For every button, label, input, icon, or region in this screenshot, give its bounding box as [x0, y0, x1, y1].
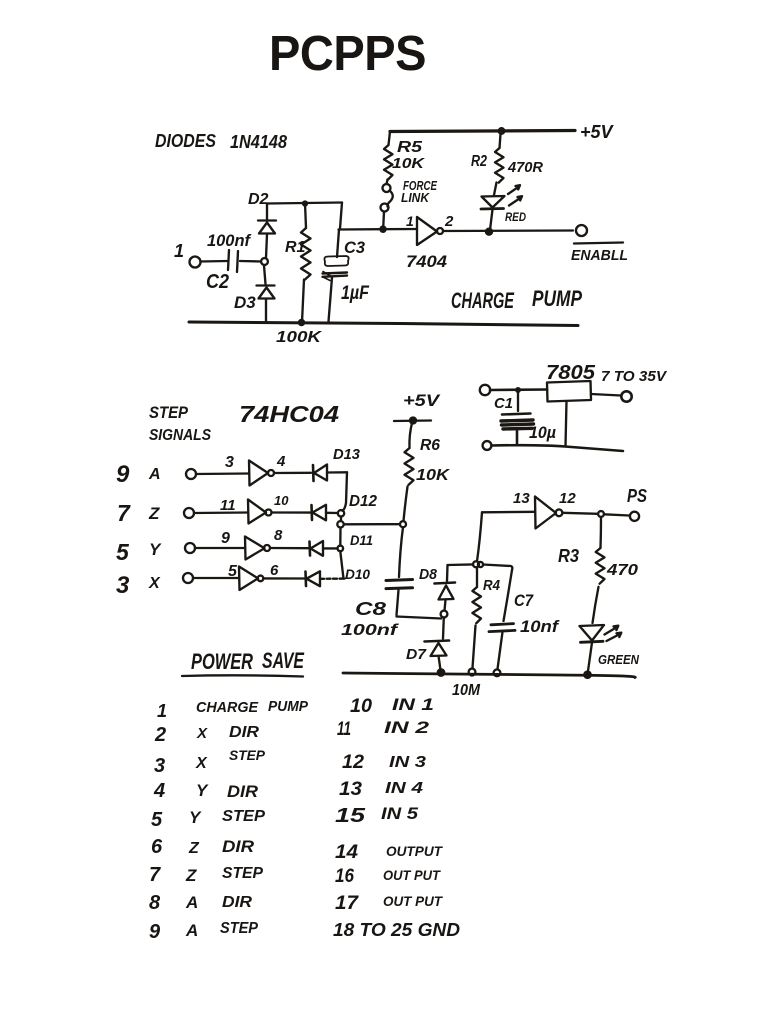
svg-text:7: 7 — [117, 500, 131, 526]
svg-text:6: 6 — [151, 836, 163, 858]
7805 ground lead — [566, 401, 567, 446]
regulator 7805 box — [547, 381, 591, 402]
wire inverter to D11 — [270, 547, 308, 550]
terminal A — [186, 469, 196, 479]
svg-text:PUMP: PUMP — [268, 698, 309, 715]
svg-text:D8: D8 — [419, 566, 438, 583]
op-amp U2B inverter — [248, 500, 266, 524]
svg-text:STEP: STEP — [229, 747, 266, 763]
junction D8/D7/C8 — [441, 611, 448, 618]
svg-text:10nf: 10nf — [520, 617, 561, 636]
svg-text:18 TO 25 GND: 18 TO 25 GND — [333, 920, 460, 940]
svg-text:10: 10 — [274, 493, 289, 508]
junction R6/C8/bus — [400, 521, 406, 527]
svg-text:OUT PUT: OUT PUT — [383, 867, 441, 883]
node junction C2/D2/D3 — [261, 258, 268, 265]
svg-text:C2: C2 — [206, 271, 229, 293]
svg-text:X: X — [195, 755, 208, 772]
op-amp U2D inverter — [239, 567, 258, 591]
wire inverter to D12 — [272, 511, 311, 513]
svg-text:7404: 7404 — [406, 252, 448, 271]
diode D7 — [442, 618, 445, 639]
svg-text:11: 11 — [220, 497, 236, 514]
svg-text:R2: R2 — [471, 153, 487, 170]
+5V stub wire — [394, 419, 431, 422]
wire inverter to PS terminal — [563, 513, 599, 514]
ground rail charge pump — [189, 322, 578, 326]
svg-text:11: 11 — [337, 719, 351, 740]
svg-text:13: 13 — [513, 490, 530, 507]
svg-text:1µF: 1µF — [341, 283, 370, 304]
regulator input terminal — [480, 385, 490, 395]
svg-text:10K: 10K — [392, 155, 425, 172]
svg-text:DIR: DIR — [227, 782, 259, 801]
svg-text:A: A — [185, 921, 198, 940]
capacitor C8 100nf — [399, 527, 403, 577]
svg-text:PS: PS — [627, 486, 647, 506]
resistor R6 10K — [409, 423, 412, 448]
svg-text:ENABLL: ENABLL — [571, 247, 628, 264]
ground rail power save — [343, 673, 635, 678]
svg-text:9: 9 — [149, 921, 161, 943]
resistor R5 10K — [389, 132, 391, 146]
resistor R4 — [476, 567, 478, 587]
svg-text:SAVE: SAVE — [262, 648, 305, 673]
capacitor C2 — [228, 250, 238, 272]
capacitor C1 10u — [517, 390, 519, 411]
svg-text:470R: 470R — [507, 159, 543, 176]
svg-text:R5: R5 — [397, 139, 423, 156]
svg-text:OUTPUT: OUTPUT — [386, 843, 443, 859]
op-amp U1 7404 inverter (pins 1,2) — [417, 217, 437, 245]
terminal Y — [185, 543, 195, 553]
diode D11 — [308, 542, 311, 556]
svg-text:100K: 100K — [276, 329, 323, 346]
wire A to inverter — [196, 472, 249, 475]
svg-text:470: 470 — [606, 562, 638, 579]
diode D12 — [310, 505, 313, 520]
svg-text:Z: Z — [185, 866, 197, 885]
svg-text:8: 8 — [274, 527, 283, 544]
svg-text:STEP: STEP — [149, 403, 189, 422]
LED arrows — [508, 185, 520, 194]
svg-text:100nf: 100nf — [207, 231, 252, 250]
7805 bottom rail — [483, 441, 492, 450]
svg-text:2: 2 — [444, 213, 454, 230]
svg-text:12: 12 — [342, 752, 364, 773]
op-amp U2C inverter — [245, 537, 265, 560]
wire input to C2 — [201, 260, 228, 263]
wire 7404 output to ENABLE — [443, 229, 573, 232]
diode D3 — [264, 266, 266, 285]
svg-text:D13: D13 — [333, 446, 361, 463]
svg-text:D3: D3 — [234, 293, 256, 312]
terminal Z — [184, 508, 194, 518]
svg-text:R1: R1 — [285, 239, 306, 256]
ENABLE terminal — [576, 225, 587, 236]
svg-text:CHARGE: CHARGE — [196, 699, 259, 716]
LED red — [482, 196, 505, 208]
node junction R4/C7/D8 — [473, 561, 479, 567]
svg-text:IN 5: IN 5 — [381, 804, 419, 823]
svg-text:IN 2: IN 2 — [384, 718, 430, 737]
svg-text:D7: D7 — [406, 646, 427, 663]
resistor R3 470 — [599, 517, 602, 548]
svg-text:IN 1: IN 1 — [392, 695, 434, 714]
svg-text:STEP: STEP — [222, 808, 265, 825]
label DIODES 1N4148 — [155, 131, 287, 152]
svg-text:10K: 10K — [416, 467, 451, 484]
resistor R1 — [305, 203, 306, 228]
svg-text:+5V: +5V — [403, 391, 441, 410]
svg-text:C3: C3 — [344, 238, 366, 257]
regulator 7805 label — [546, 362, 668, 385]
svg-text:13: 13 — [339, 779, 362, 800]
svg-text:Y: Y — [196, 781, 209, 800]
svg-text:Z: Z — [188, 840, 200, 857]
svg-text:R3: R3 — [558, 546, 579, 566]
svg-text:3: 3 — [116, 572, 130, 599]
wire C8 bottom to D8/D7 junction — [397, 617, 442, 619]
svg-text:A: A — [148, 466, 161, 483]
capacitor C7 10nf — [504, 570, 513, 621]
svg-text:C8: C8 — [355, 599, 386, 619]
svg-text:5: 5 — [151, 809, 163, 831]
wire D8 top to node — [448, 563, 474, 566]
svg-text:R4: R4 — [483, 577, 501, 594]
svg-text:C7: C7 — [514, 591, 534, 610]
wire inverter to D10 — [264, 577, 305, 579]
svg-text:4: 4 — [153, 780, 165, 802]
svg-text:X: X — [196, 725, 208, 742]
wire input to 7805 — [490, 388, 547, 391]
svg-text:RED: RED — [505, 210, 526, 224]
svg-text:DIR: DIR — [222, 837, 255, 856]
junction D7 on ground rail — [438, 669, 444, 675]
wire X to inverter — [193, 577, 239, 579]
svg-text:12: 12 — [559, 490, 576, 507]
svg-text:A: A — [185, 893, 198, 912]
svg-text:5: 5 — [116, 539, 130, 565]
LED green — [580, 625, 605, 641]
diode D13 — [312, 465, 315, 481]
wire C3 node to 7404 input — [339, 228, 418, 231]
svg-text:1N4148: 1N4148 — [230, 132, 287, 152]
capacitor C3 (1uF electrolytic) — [340, 203, 342, 229]
svg-text:LINK: LINK — [401, 190, 430, 205]
svg-text:3: 3 — [225, 454, 234, 471]
svg-text:D2: D2 — [248, 191, 269, 208]
svg-text:1: 1 — [157, 701, 167, 721]
wire Y to inverter — [195, 547, 245, 549]
diode bus vertical — [343, 472, 348, 511]
diode D2 — [266, 234, 267, 258]
svg-text:1: 1 — [174, 241, 184, 261]
svg-text:10M: 10M — [452, 682, 481, 699]
svg-text:74HC04: 74HC04 — [239, 401, 339, 427]
wire node to C7 — [483, 565, 512, 571]
svg-text:STEP: STEP — [220, 920, 258, 937]
svg-text:14: 14 — [335, 842, 358, 863]
svg-text:16: 16 — [335, 866, 354, 887]
svg-text:DIR: DIR — [222, 894, 252, 911]
svg-text:DIR: DIR — [229, 724, 259, 741]
svg-text:GREEN: GREEN — [598, 652, 640, 667]
heading underline — [182, 675, 303, 676]
table left column — [149, 698, 309, 943]
wire inverter to D13 — [274, 472, 311, 475]
svg-text:6: 6 — [270, 562, 279, 579]
svg-text:OUT PUT: OUT PUT — [383, 893, 443, 909]
junction on bus at D12 — [338, 510, 344, 516]
junction on bus at D11 — [338, 546, 344, 552]
op-amp U2A inverter — [249, 461, 268, 486]
svg-text:10µ: 10µ — [529, 423, 556, 442]
svg-text:4: 4 — [276, 453, 286, 470]
wire 7805 to output terminal — [591, 394, 621, 396]
svg-text:PUMP: PUMP — [532, 286, 582, 311]
svg-text:X: X — [148, 575, 161, 592]
svg-text:C1: C1 — [494, 395, 513, 412]
svg-text:IN 3: IN 3 — [389, 754, 426, 771]
svg-text:DIODES: DIODES — [155, 131, 216, 151]
terminal PS — [630, 512, 639, 521]
svg-text:POWER: POWER — [191, 649, 253, 674]
svg-text:D12: D12 — [349, 493, 377, 510]
svg-text:15: 15 — [335, 805, 366, 827]
force link circles — [383, 184, 391, 192]
svg-text:5: 5 — [228, 563, 238, 580]
svg-text:8: 8 — [149, 892, 161, 914]
heading POWER SAVE — [191, 648, 305, 674]
svg-text:D11: D11 — [350, 532, 373, 548]
svg-text:7: 7 — [149, 864, 161, 886]
svg-text:Z: Z — [148, 504, 160, 523]
svg-text:STEP: STEP — [222, 865, 263, 882]
diode D10 — [304, 572, 307, 587]
svg-text:CHARGE: CHARGE — [451, 288, 515, 313]
svg-text:SIGNALS: SIGNALS — [149, 427, 211, 444]
svg-text:2: 2 — [154, 724, 166, 746]
svg-text:9: 9 — [221, 530, 230, 547]
svg-text:Y: Y — [189, 808, 202, 827]
svg-text:10: 10 — [350, 696, 372, 717]
terminal X — [183, 573, 193, 583]
svg-text:IN 4: IN 4 — [385, 780, 423, 797]
wire Z to inverter — [194, 511, 248, 514]
LED green arrows — [605, 626, 619, 635]
wire bus to R6 junction — [344, 523, 400, 525]
svg-text:Y: Y — [149, 540, 162, 559]
svg-text:3: 3 — [154, 755, 165, 777]
svg-text:D10: D10 — [345, 566, 370, 582]
label CHARGE PUMP — [451, 286, 582, 313]
+5V rail (charge pump) — [390, 131, 575, 132]
label STEP SIGNALS — [149, 403, 211, 444]
resistor R2 470R — [499, 128, 505, 134]
svg-text:100nf: 100nf — [341, 622, 399, 639]
svg-text:9: 9 — [116, 461, 130, 488]
svg-text:1: 1 — [406, 213, 414, 229]
svg-text:PCPPS: PCPPS — [269, 27, 426, 81]
svg-text:7 TO 35V: 7 TO 35V — [601, 368, 668, 385]
table right column — [333, 695, 460, 940]
wire top rail D2 to C3 — [267, 203, 342, 204]
svg-text:R6: R6 — [420, 437, 440, 454]
svg-text:+5V: +5V — [580, 122, 615, 142]
svg-text:17: 17 — [335, 893, 360, 914]
op-amp U2E inverter (pins 13,12) — [482, 511, 535, 514]
